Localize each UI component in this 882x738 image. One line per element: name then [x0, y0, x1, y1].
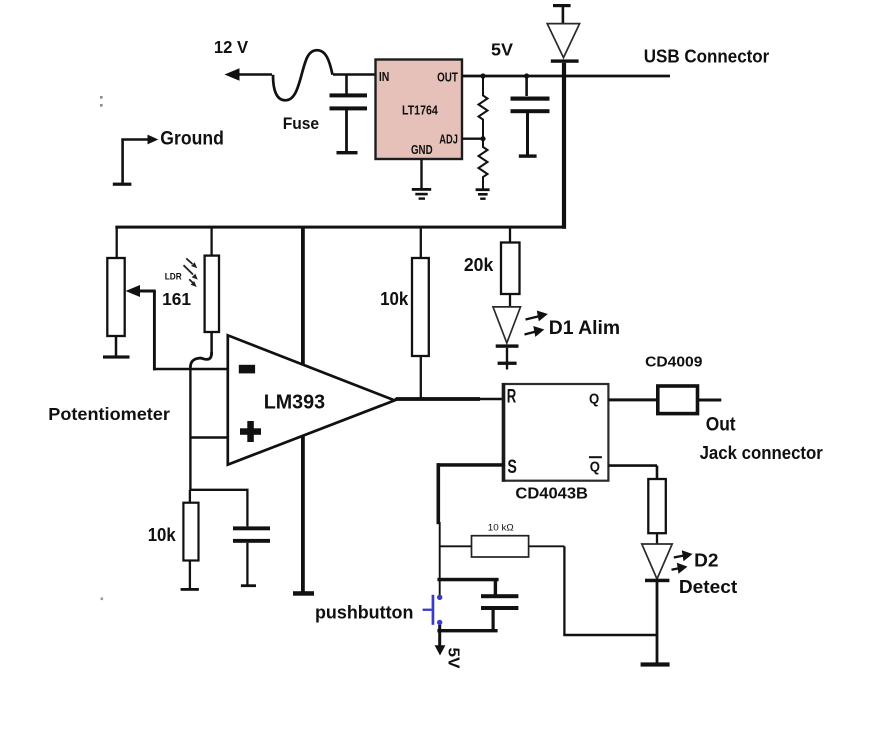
svg-text:LT1764: LT1764 [402, 104, 438, 118]
svg-text:R: R [507, 387, 517, 408]
svg-text:5V: 5V [445, 648, 462, 669]
svg-text:GND: GND [411, 143, 433, 157]
svg-text:pushbutton: pushbutton [315, 602, 413, 622]
svg-text:Q: Q [589, 390, 599, 407]
svg-text:20k: 20k [464, 255, 494, 275]
svg-text:5V: 5V [491, 39, 513, 59]
svg-text:LM393: LM393 [264, 392, 325, 414]
svg-text:10k: 10k [380, 289, 409, 309]
svg-text:Ground: Ground [160, 129, 224, 150]
svg-text:10k: 10k [148, 525, 177, 545]
svg-text:Detect: Detect [679, 576, 737, 597]
svg-text:ADJ: ADJ [439, 133, 458, 147]
svg-text:Jack connector: Jack connector [700, 443, 823, 463]
svg-text:Potentiometer: Potentiometer [48, 404, 170, 424]
svg-text:CD4009: CD4009 [645, 354, 702, 370]
svg-text:USB Connector: USB Connector [644, 47, 770, 67]
svg-text:10 kΩ: 10 kΩ [488, 523, 514, 534]
svg-text:Out: Out [706, 415, 737, 436]
svg-text:161: 161 [162, 289, 191, 309]
svg-text:12 V: 12 V [214, 37, 249, 57]
svg-text:OUT: OUT [437, 71, 458, 85]
svg-text:CD4043B: CD4043B [515, 485, 588, 502]
svg-text:LDR: LDR [165, 272, 182, 283]
svg-text:S: S [507, 457, 517, 478]
svg-text:D2: D2 [694, 549, 718, 570]
svg-text:Q: Q [590, 459, 600, 476]
svg-text:IN: IN [379, 70, 390, 84]
svg-text:Fuse: Fuse [283, 115, 319, 133]
svg-text:D1 Alim: D1 Alim [549, 318, 620, 339]
